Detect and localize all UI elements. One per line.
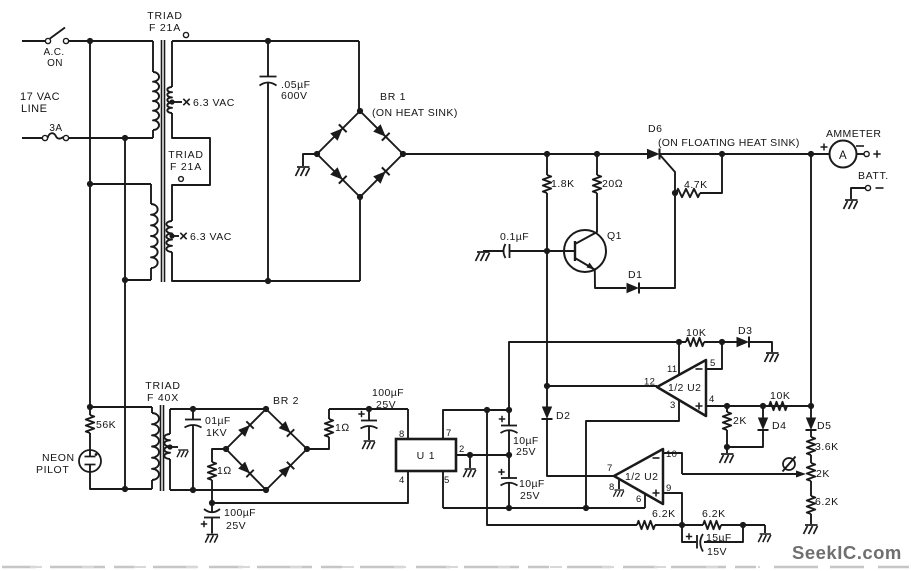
svg-text:2K: 2K [816, 468, 830, 480]
op-amp U2b plus mark [653, 490, 660, 497]
capacitor 100uF top [368, 409, 370, 420]
node switch junction [87, 38, 93, 44]
node BR2 right [304, 446, 310, 452]
wire T3 secondary bottom rail [170, 489, 266, 491]
resistor 4.7K [676, 189, 700, 197]
svg-text:01µF: 01µF [205, 415, 231, 427]
svg-text:3A: 3A [49, 123, 62, 134]
node pin7 wire junction [506, 407, 512, 413]
node cap .05uF bottom [265, 278, 271, 284]
transformer T3 secondary winding [169, 409, 171, 434]
terminal BATT plus [864, 151, 869, 156]
diode BR2 upper-right [278, 421, 294, 437]
pin 5 stub U1 [442, 471, 444, 508]
svg-text:6.3 VAC: 6.3 VAC [193, 97, 235, 109]
wire T1 secondary bottom detour to T2 secondary top [172, 113, 210, 221]
fuse F1 3A [42, 135, 47, 140]
pin 5 wire [706, 342, 722, 369]
node pin11 junction [676, 339, 682, 345]
wire ammeter to terminal [857, 153, 865, 155]
pin 3 wire [586, 400, 679, 508]
pin 11 stub [678, 342, 680, 375]
op-amp U2b minus mark [653, 457, 660, 459]
svg-text:100µF: 100µF [224, 507, 256, 519]
wire D2 to U2b output [547, 419, 614, 476]
svg-text:(ON HEAT SINK): (ON HEAT SINK) [372, 107, 458, 119]
wire T2 center tap [172, 235, 179, 237]
ammeter A1 [830, 141, 857, 168]
pin 4 wire U1 [212, 471, 408, 503]
svg-text:1Ω: 1Ω [217, 465, 232, 477]
svg-text:25V: 25V [520, 490, 540, 502]
bridge rectifier BR1 diamond [317, 111, 403, 197]
wire T2 primary top [90, 183, 151, 185]
transformer T3 primary winding [151, 407, 153, 413]
svg-text:6.2K: 6.2K [815, 496, 839, 508]
node pin2 cap junction [506, 452, 512, 458]
node U2a output junction [544, 383, 550, 389]
node 1.8K top [544, 151, 550, 157]
label 10uF first plus [499, 416, 505, 422]
resistor 2K [726, 406, 728, 412]
svg-text:D4: D4 [772, 420, 786, 432]
ground 2K [720, 454, 734, 463]
svg-text:PILOT: PILOT [36, 464, 69, 476]
wire pin2 ground stub [469, 455, 471, 468]
capacitor 100uF bottom [211, 503, 213, 513]
diode BR2 lower-left [238, 461, 254, 477]
diode D1 [627, 283, 640, 294]
wire vertical hot bus [89, 41, 91, 407]
potentiometer 2K [807, 463, 815, 481]
svg-text:5: 5 [444, 475, 450, 486]
wire right rail down [810, 154, 812, 418]
diode BR1 lower-left [330, 167, 347, 184]
transformer T1 secondary winding [171, 41, 173, 87]
svg-text:(ON FLOATING HEAT SINK): (ON FLOATING HEAT SINK) [658, 137, 800, 149]
resistor 3.6K [810, 430, 812, 437]
wire U1 ground rail [443, 507, 645, 509]
node 20ohm top [594, 151, 600, 157]
op-amp U2a plus mark [696, 403, 703, 410]
node pin3 rail junction [583, 505, 589, 511]
svg-text:4: 4 [709, 394, 715, 405]
wire cap to Q1 base [510, 250, 576, 252]
wire 10K to D3 [704, 341, 737, 343]
node T2 primary bottom junction [122, 277, 128, 283]
terminal circle T1 secondary top [183, 32, 188, 37]
transformer T3 core [160, 405, 162, 491]
resistor 6.2K first [637, 521, 655, 529]
svg-text:25V: 25V [226, 520, 246, 532]
svg-text:Q1: Q1 [607, 230, 622, 242]
node D1-4.7K junction [672, 190, 678, 196]
wire caps riser [508, 410, 510, 426]
wire neon to bottom rail [90, 472, 152, 489]
op-amp U2a body [657, 360, 706, 416]
node D4 top [760, 403, 766, 409]
svg-text:3.6K: 3.6K [815, 441, 839, 453]
wire AC hot line from left edge [22, 40, 46, 42]
capacitor 15uF plates [696, 535, 698, 549]
svg-text:BR 1: BR 1 [380, 91, 406, 103]
svg-text:10K: 10K [770, 390, 790, 402]
ground 100uF top [362, 441, 375, 449]
node BR2 left [223, 446, 229, 452]
svg-text:8: 8 [399, 429, 405, 440]
svg-text:11: 11 [667, 364, 677, 375]
wire fuse to transformer primary bottom [69, 137, 153, 139]
resistor 56K [89, 407, 91, 415]
resistor 6.2K second [703, 521, 721, 529]
node BR1 left [314, 151, 320, 157]
switch S1 A.C. ON [45, 38, 50, 43]
svg-text:F 21A: F 21A [149, 22, 181, 34]
wire batt minus to ground [851, 188, 865, 199]
svg-text:1/2 U2: 1/2 U2 [668, 382, 701, 394]
ground pin8 [613, 490, 624, 497]
node cap .05uF top [265, 38, 271, 44]
svg-text:10: 10 [666, 449, 677, 460]
bridge rectifier BR2 diamond [226, 409, 307, 490]
svg-text:1/2 U2: 1/2 U2 [625, 471, 658, 483]
ground BATT [844, 200, 858, 209]
svg-text:12: 12 [644, 377, 655, 388]
svg-text:25V: 25V [376, 399, 396, 411]
label 15uF plus [686, 533, 692, 539]
wire 20ohm to Q1 collector [575, 193, 597, 244]
resistor 10K feedback [686, 338, 704, 346]
svg-text:TRIAD: TRIAD [147, 10, 183, 22]
wire D1 to 4.7K node [639, 193, 675, 288]
diode D3 [737, 337, 750, 348]
wire BR1 output rail [403, 153, 648, 155]
node ammeter branch [808, 151, 814, 157]
wire BR1 left to ground [303, 154, 317, 166]
ground 0.1uF [476, 252, 490, 261]
transformer T1/T2 core [161, 40, 163, 282]
svg-text:AMMETER: AMMETER [826, 128, 881, 140]
resistor 1ohm right [307, 437, 329, 449]
svg-text:6.3 VAC: 6.3 VAC [190, 231, 232, 243]
svg-text:8: 8 [609, 482, 615, 493]
diode D5 [806, 418, 817, 431]
svg-text:ON: ON [47, 58, 63, 69]
label 100uF bottom plus [201, 521, 207, 527]
ammeter minus mark [856, 145, 864, 147]
svg-text:5: 5 [710, 358, 716, 369]
capacitor 15uF wires [682, 525, 696, 542]
svg-text:NEON: NEON [42, 452, 75, 464]
wire D4 bottom [727, 430, 763, 447]
node 15uF right junction [740, 522, 746, 528]
transistor Q1 emitter [575, 258, 595, 270]
resistor 6.2K right [810, 481, 812, 496]
capacitor 0.1uF [504, 244, 506, 258]
batt plus mark [873, 150, 880, 157]
svg-text:6: 6 [636, 494, 642, 505]
ground T3 tap [177, 450, 188, 457]
op-amp U2b body [614, 449, 663, 504]
wire ground stub [764, 525, 766, 533]
node fuse junction [122, 135, 128, 141]
svg-text:A: A [839, 150, 847, 162]
wire 4.7K to rail [700, 154, 722, 193]
ground BR1 [296, 167, 310, 176]
pin 2 wire U1 [456, 454, 509, 456]
node 2K top [724, 403, 730, 409]
wire between 6.2K [655, 524, 703, 526]
svg-text:9: 9 [666, 483, 672, 494]
node BR2 top [263, 406, 269, 412]
svg-text:4: 4 [399, 475, 405, 486]
wire 6.2K branch riser [487, 410, 637, 525]
svg-text:20Ω: 20Ω [602, 178, 623, 190]
svg-text:6.2K: 6.2K [702, 508, 726, 520]
node divider top [808, 403, 814, 409]
op-amp U2a minus mark [696, 368, 703, 370]
resistor 20ohm [596, 154, 598, 175]
wire emitter down [595, 270, 626, 289]
svg-text:6.2K: 6.2K [652, 508, 676, 520]
svg-text:1.8K: 1.8K [551, 178, 575, 190]
transistor Q1 base bar [574, 241, 576, 261]
wire T2 primary bottom [125, 279, 151, 281]
pin 4 wire [706, 405, 811, 407]
wire T3 center tap [170, 446, 178, 448]
wire T3 primary top [90, 406, 152, 408]
svg-text:2K: 2K [733, 415, 747, 427]
capacitor 10uF first [501, 425, 517, 427]
wire D6 to ammeter rail [660, 153, 830, 155]
svg-text:BR 2: BR 2 [273, 395, 299, 407]
wire top secondary rail [172, 40, 359, 42]
svg-text:TRIAD: TRIAD [145, 380, 181, 392]
svg-text:U 1: U 1 [417, 450, 436, 462]
svg-text:LINE: LINE [21, 103, 47, 115]
tap mark X 6.3 VAC (T1) [183, 99, 189, 105]
node Q1 base junction [544, 248, 550, 254]
pin 8 stub [618, 480, 620, 489]
node BR1 right [400, 151, 406, 157]
wire switch to transformer primary [69, 40, 153, 42]
node T2 tap [169, 233, 174, 238]
wire feedback left riser [509, 342, 686, 410]
batt minus mark [876, 187, 884, 189]
diode D4 [762, 406, 764, 418]
diode BR2 lower-right [278, 462, 294, 478]
ground D3 [765, 353, 779, 362]
svg-text:7: 7 [607, 463, 613, 474]
svg-text:A.C.: A.C. [43, 47, 64, 58]
pin 7 stub U1 [443, 410, 509, 439]
wire 2K bottom to ground [726, 447, 728, 453]
svg-text:1Ω: 1Ω [335, 422, 350, 434]
node .01uF bottom [190, 487, 196, 493]
tap mark X 6.3 VAC (T2) [180, 233, 186, 239]
wire T1 center tap [172, 101, 182, 103]
svg-text:15V: 15V [707, 546, 727, 558]
node pin5 junction [719, 339, 725, 345]
label 100uF top plus [358, 411, 364, 417]
transformer T2 secondary winding [166, 221, 172, 252]
wire D6 slant to 4.7K [660, 155, 675, 193]
wire ground to cap [483, 250, 503, 252]
svg-text:F 40X: F 40X [147, 392, 179, 404]
node 100uF top junction [366, 406, 372, 412]
node T2 primary top junction [87, 181, 93, 187]
label 10uF second plus [498, 469, 504, 475]
node BR1 top [357, 108, 363, 114]
svg-text:2: 2 [459, 444, 465, 455]
svg-text:17 VAC: 17 VAC [20, 91, 60, 103]
resistor 1ohm left [212, 449, 226, 462]
node 4.7K right top [719, 151, 725, 157]
diode D2 [542, 407, 553, 420]
transformer T1 primary winding [152, 41, 154, 72]
node 6.2K branch top [484, 407, 490, 413]
wire vertical neutral bus [124, 138, 126, 489]
svg-text:1KV: 1KV [206, 427, 227, 439]
ground divider [804, 525, 818, 534]
node pin2 ground junction [467, 452, 473, 458]
terminal circle T2 secondary top [179, 177, 184, 182]
node T1 tap [169, 99, 174, 104]
svg-text:D3: D3 [738, 325, 752, 337]
scan artifact dashed bottom line [2, 566, 909, 568]
pin 8 stub U1 [407, 409, 409, 439]
svg-text:10K: 10K [686, 327, 706, 339]
wire D3 to ground [749, 342, 772, 352]
ground 6.2K [758, 534, 771, 542]
svg-text:SeekIC.com: SeekIC.com [792, 542, 902, 563]
node .01uF top [190, 406, 196, 412]
node caps bottom [506, 505, 512, 511]
pin 6 stub [644, 494, 646, 508]
wire 6.2K to ground stub [721, 524, 765, 526]
svg-text:F 21A: F 21A [170, 161, 202, 173]
trimmer symbol circle-slash [783, 458, 795, 470]
wire BR1 bottom to secondary rail [359, 197, 361, 281]
svg-text:600V: 600V [281, 90, 308, 102]
svg-text:D1: D1 [628, 269, 642, 281]
svg-text:0.1µF: 0.1µF [500, 231, 529, 243]
svg-text:7: 7 [446, 428, 452, 439]
svg-text:15µF: 15µF [706, 532, 732, 544]
resistor 1.8K [546, 154, 548, 175]
node 100uF bottom junction [209, 500, 215, 506]
svg-text:3: 3 [670, 400, 676, 411]
capacitor .01uF 1KV [192, 409, 194, 419]
svg-text:4.7K: 4.7K [684, 179, 708, 191]
diode BR2 upper-left [238, 421, 254, 437]
wire 1.8K down bus [546, 193, 548, 407]
IC U1 box [396, 439, 456, 471]
node BR1 bottom [357, 194, 363, 200]
terminal BATT minus [865, 185, 870, 190]
svg-text:10µF: 10µF [519, 478, 545, 490]
wire U2a output [547, 385, 657, 387]
ammeter plus mark [821, 144, 828, 151]
diode BR1 lower-right [373, 167, 390, 184]
node 56K top [87, 404, 93, 410]
pin 10 wire [663, 453, 682, 474]
wire T2 secondary bottom rail [172, 252, 360, 281]
svg-text:D5: D5 [817, 420, 831, 432]
svg-text:D2: D2 [556, 410, 570, 422]
svg-text:56K: 56K [96, 419, 116, 431]
wire top rail into bridge [358, 41, 360, 111]
svg-text:TRIAD: TRIAD [168, 149, 204, 161]
transformer T2 primary winding [150, 184, 152, 204]
svg-text:100µF: 100µF [372, 387, 404, 399]
svg-text:BATT.: BATT. [858, 170, 889, 182]
capacitor 10uF second [501, 477, 517, 479]
svg-text:D6: D6 [648, 123, 662, 135]
neon pilot lamp [79, 450, 101, 472]
node pin9 bottom junction [679, 522, 685, 528]
diode D6 [647, 149, 660, 160]
diode BR1 upper-right [373, 124, 390, 141]
wire AC neutral from left edge [22, 137, 42, 139]
capacitor C1 .05uF 600V [267, 41, 269, 76]
svg-text:25V: 25V [516, 446, 536, 458]
node T3 tap [167, 444, 172, 449]
ground pin2 [463, 469, 476, 477]
transistor Q1 circle [564, 230, 606, 272]
wire T3 secondary top rail [170, 408, 266, 410]
node BR2 bottom [263, 487, 269, 493]
node neutral bottom junction [122, 486, 128, 492]
ground 100uF bottom [205, 535, 218, 543]
wire 1ohm to pin8 [329, 408, 408, 410]
diode BR1 upper-left [330, 124, 347, 141]
pot wiper arrow [682, 473, 801, 475]
pin 9 wire [663, 493, 682, 525]
resistor 10K right [769, 402, 787, 410]
node 2K bottom [724, 444, 730, 450]
